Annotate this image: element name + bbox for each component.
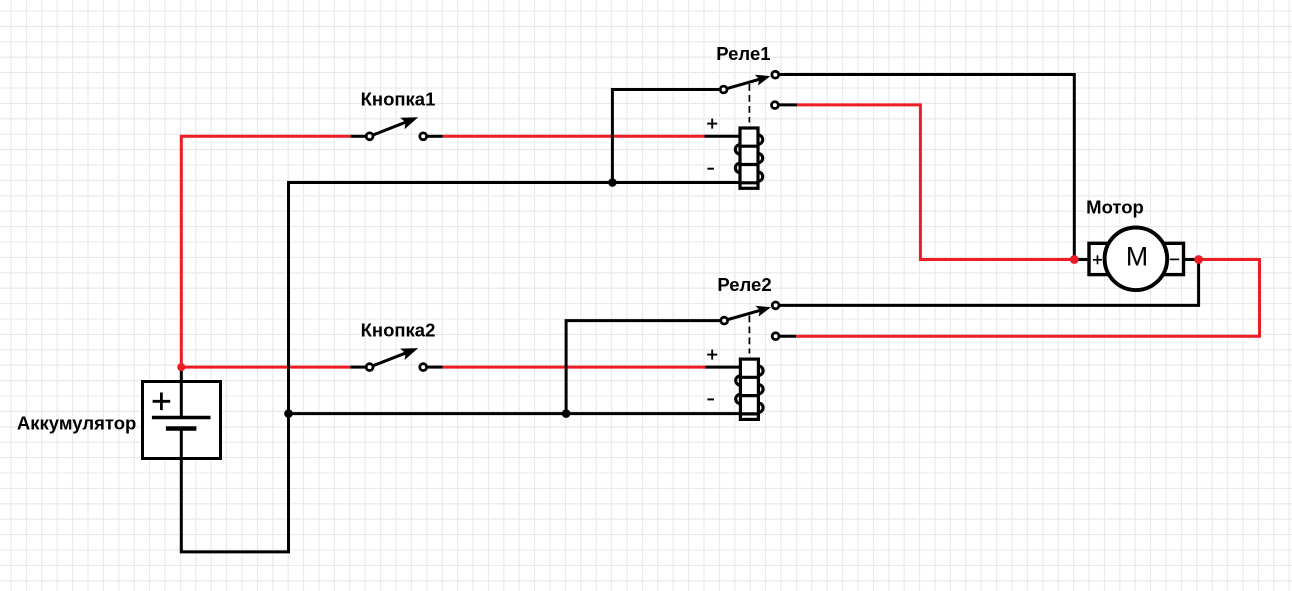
svg-text:М: М [1126, 242, 1148, 272]
svg-text:Мотор: Мотор [1086, 197, 1144, 218]
svg-text:Кнопка1: Кнопка1 [361, 89, 436, 110]
svg-text:Реле1: Реле1 [716, 43, 770, 64]
svg-text:Аккумулятор: Аккумулятор [17, 412, 136, 433]
svg-text:Реле2: Реле2 [717, 274, 771, 295]
svg-text:Кнопка2: Кнопка2 [361, 320, 436, 341]
